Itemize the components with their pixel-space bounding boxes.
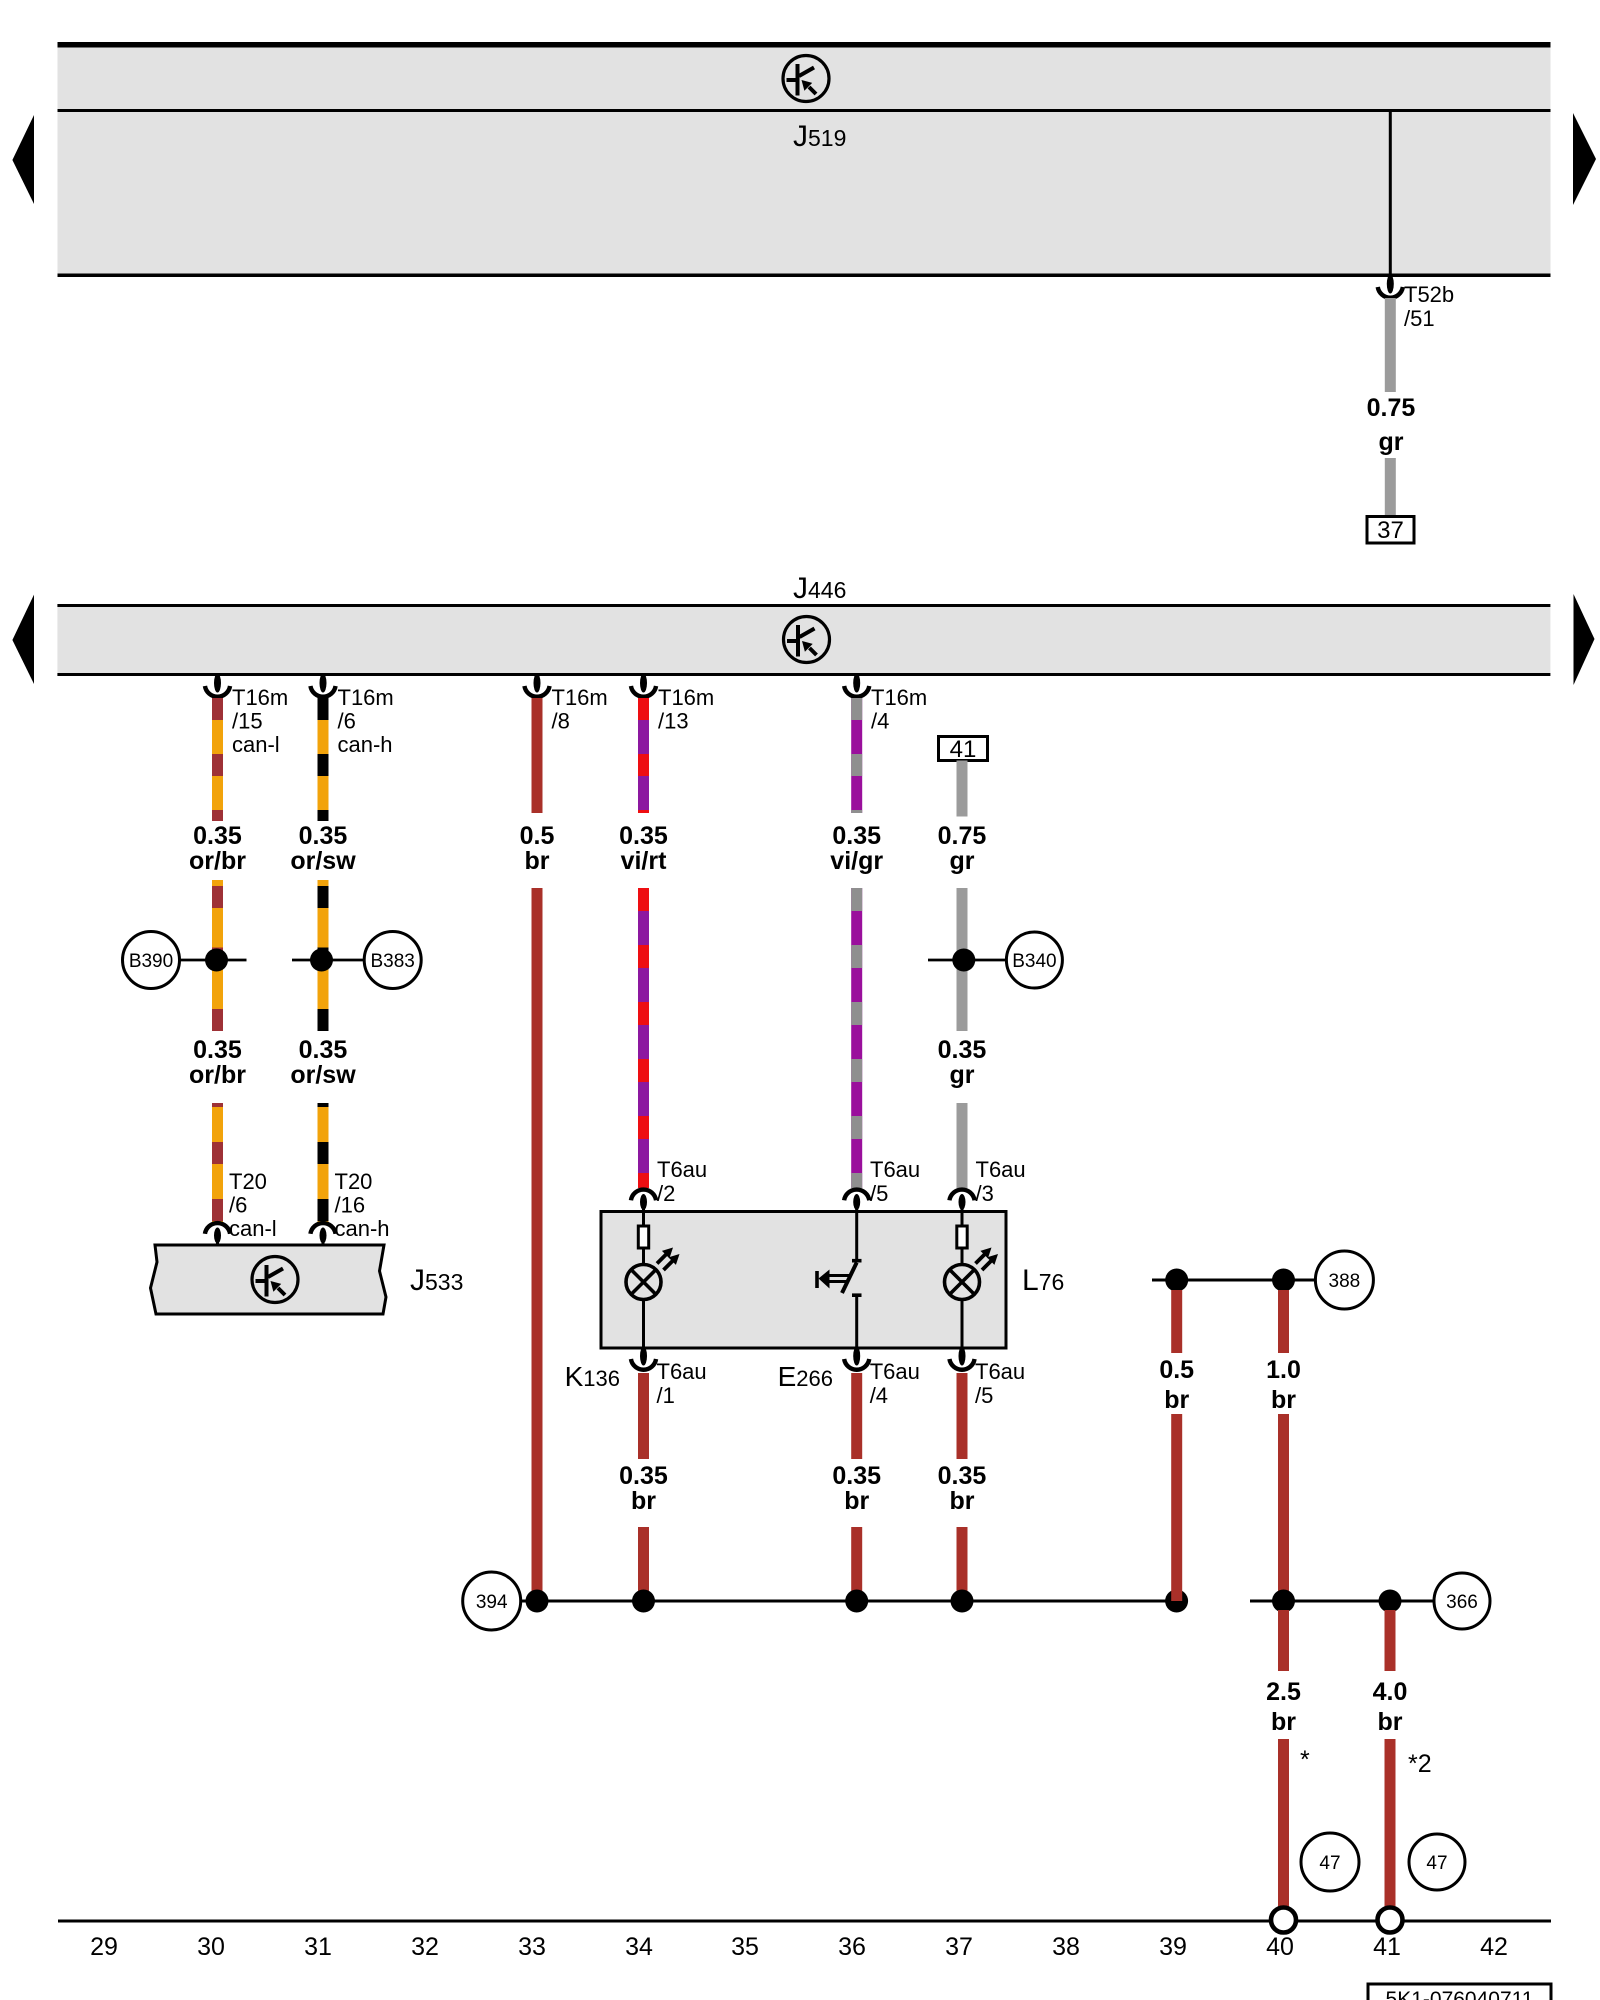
svg-text:or/sw: or/sw (290, 1061, 356, 1089)
svg-text:31: 31 (304, 1933, 332, 1961)
svg-text:41: 41 (1373, 1933, 1401, 1961)
svg-text:or/br: or/br (189, 847, 246, 875)
connector T6au/5 (top) (844, 1190, 869, 1212)
svg-text:37: 37 (1377, 517, 1404, 544)
svg-text:0.35: 0.35 (938, 1462, 987, 1490)
warning lamp (second, right) in L76 (945, 1212, 999, 1349)
junction on wire or/sw (310, 949, 333, 972)
svg-text:B390: B390 (129, 951, 173, 972)
ground terminal ring (track 41) (1378, 1908, 1403, 1933)
svg-text:gr: gr (950, 1061, 975, 1089)
svg-text:*2: *2 (1408, 1750, 1432, 1778)
svg-text:*: * (1300, 1746, 1310, 1774)
svg-text:br: br (1164, 1386, 1189, 1414)
svg-text:0.35: 0.35 (193, 822, 242, 850)
svg-text:/5: /5 (975, 1383, 993, 1408)
bus line 366 (1250, 1600, 1434, 1603)
svg-text:br: br (1271, 1386, 1296, 1414)
svg-text:can-h: can-h (335, 1216, 390, 1241)
svg-text:/2: /2 (657, 1181, 675, 1206)
node circle 394 (463, 1572, 521, 1630)
svg-text:vi/gr: vi/gr (830, 847, 883, 875)
svg-text:K136: K136 (565, 1361, 620, 1392)
svg-text:0.35: 0.35 (299, 822, 348, 850)
svg-text:br: br (631, 1487, 656, 1515)
svg-text:T6au: T6au (657, 1157, 707, 1182)
connector T16m/8 (524, 674, 549, 697)
wire or/sw segment 3 (318, 1103, 329, 1222)
connector T6au/1 (bottom) (631, 1347, 656, 1370)
wire or/sw segment 2 (318, 880, 329, 1031)
svg-text:2.5: 2.5 (1266, 1678, 1301, 1706)
lamp unit box L76 (601, 1212, 1006, 1349)
control unit J533 (data bus diagnostic interface) box (151, 1245, 387, 1314)
svg-text:T16m: T16m (552, 685, 608, 710)
wire inside J519 to pin T52b/51 (1389, 112, 1392, 276)
svg-text:B383: B383 (371, 951, 415, 972)
svg-text:29: 29 (90, 1933, 118, 1961)
track reference box 41 (939, 736, 988, 763)
svg-text:38: 38 (1052, 1933, 1080, 1961)
control unit J519 (onboard supply control unit) box (58, 42, 1551, 277)
svg-text:388: 388 (1329, 1271, 1361, 1292)
svg-text:or/br: or/br (189, 1061, 246, 1089)
junction 394 right end (1165, 1590, 1188, 1613)
svg-text:L76: L76 (1022, 1264, 1064, 1297)
wire 2.5 br seg 2 (1278, 1739, 1289, 1908)
svg-text:/6: /6 (229, 1193, 247, 1218)
svg-text:30: 30 (197, 1933, 225, 1961)
svg-text:E266: E266 (778, 1361, 833, 1392)
svg-text:5K1-076040711: 5K1-076040711 (1386, 1988, 1534, 2000)
wire 0.5 br segment 2 (long, to ground bus 394) (532, 888, 543, 1601)
svg-text:4.0: 4.0 (1373, 1678, 1408, 1706)
wire 1.0 br (x=1283.5) seg 1 (1278, 1290, 1289, 1353)
wire 0.35 br from lamp2 seg 1 (957, 1373, 968, 1459)
svg-text:0.35: 0.35 (619, 822, 668, 850)
connector T20/16 (310, 1223, 335, 1245)
svg-text:T16m: T16m (338, 685, 394, 710)
wire or/br segment 3 (212, 1103, 223, 1222)
svg-text:0.75: 0.75 (938, 822, 987, 850)
svg-text:T16m: T16m (871, 685, 927, 710)
connector T6au/2 (631, 1190, 656, 1212)
node line to B390 (180, 959, 247, 962)
wire 0.35 br from E266 seg 1 (851, 1373, 862, 1459)
junction 366 left (1272, 1590, 1295, 1613)
svg-text:B340: B340 (1012, 951, 1056, 972)
wire 4.0 br seg 2 (1385, 1739, 1396, 1908)
svg-text:gr: gr (1379, 428, 1404, 456)
junction on wire or/br (205, 949, 228, 972)
bus line 394 (521, 1600, 1178, 1603)
connector T52b/51 (1378, 275, 1403, 298)
svg-text:42: 42 (1480, 1933, 1508, 1961)
svg-text:0.35: 0.35 (832, 1462, 881, 1490)
svg-text:0.35: 0.35 (619, 1462, 668, 1490)
connector T16m/6 (310, 674, 335, 697)
wire vi/rt segment 2 (638, 888, 649, 1188)
connector T16m/13 (631, 674, 656, 697)
svg-text:36: 36 (838, 1933, 866, 1961)
svg-text:0.35: 0.35 (299, 1036, 348, 1064)
left page arrow (J446 band) (12, 595, 34, 684)
svg-text:0.5: 0.5 (520, 822, 555, 850)
svg-text:br: br (844, 1487, 869, 1515)
wire gr segment 3 (957, 1103, 968, 1188)
svg-text:/8: /8 (552, 709, 570, 734)
svg-text:/13: /13 (658, 709, 689, 734)
ground designation circle 47 (right) (1409, 1834, 1465, 1890)
node circle B383 (364, 932, 421, 989)
wire 0.35 br from K136 seg 1 (638, 1373, 649, 1459)
wire or/sw segment 1 (318, 698, 329, 821)
connector T20/6 (205, 1223, 230, 1245)
svg-text:33: 33 (518, 1933, 546, 1961)
svg-text:can-h: can-h (338, 732, 393, 757)
svg-text:T6au: T6au (870, 1157, 920, 1182)
node line to B340 (928, 959, 1006, 962)
K symbol in J533 (252, 1257, 298, 1303)
wire 0.75 gr upper segment (1385, 298, 1396, 392)
svg-text:32: 32 (411, 1933, 439, 1961)
svg-text:J519: J519 (793, 120, 846, 153)
svg-text:T52b: T52b (1404, 282, 1454, 307)
wire gr segment 2 (957, 888, 968, 1031)
left page arrow (top band) (12, 115, 34, 204)
bottom rail line (58, 1920, 1551, 1923)
wire 0.5 br (x=1176.7) seg 1 (1171, 1290, 1182, 1353)
wire or/br segment 2 (212, 880, 223, 1031)
svg-text:/1: /1 (657, 1383, 675, 1408)
svg-text:T20: T20 (335, 1169, 373, 1194)
right page arrow (J446 band) (1574, 594, 1595, 685)
svg-text:394: 394 (476, 1592, 508, 1613)
svg-text:/4: /4 (870, 1383, 888, 1408)
svg-text:br: br (950, 1487, 975, 1515)
wire vi/gr segment 2 (851, 888, 862, 1188)
node line to B383 (292, 959, 365, 962)
svg-text:1.0: 1.0 (1266, 1356, 1301, 1384)
node circle 388 (1315, 1251, 1373, 1309)
svg-text:J533: J533 (410, 1264, 463, 1297)
svg-text:J446: J446 (793, 572, 846, 605)
ground designation circle 47 (left) (1301, 1833, 1359, 1891)
wire or/br segment 1 (212, 698, 223, 821)
wire 0.75 gr lower segment (1385, 458, 1396, 517)
wire 0.5 br (x=1176.7) seg 2 (1171, 1414, 1182, 1601)
svg-text:T16m: T16m (658, 685, 714, 710)
wire 0.35 br from lamp2 seg 2 (957, 1527, 968, 1601)
wire 4.0 br seg 1 (1385, 1610, 1396, 1671)
svg-text:40: 40 (1266, 1933, 1294, 1961)
junction 394/br0.5 (526, 1590, 549, 1613)
svg-text:366: 366 (1446, 1592, 1478, 1613)
switch E266 (817, 1212, 862, 1349)
svg-text:/15: /15 (232, 709, 263, 734)
node circle B340 (1006, 932, 1062, 988)
svg-text:T6au: T6au (657, 1359, 707, 1384)
svg-text:vi/rt: vi/rt (621, 847, 668, 875)
svg-text:/51: /51 (1404, 306, 1435, 331)
svg-text:37: 37 (945, 1933, 973, 1961)
bus line 388 (1152, 1279, 1315, 1282)
svg-text:T16m: T16m (232, 685, 288, 710)
wire 0.35 br from E266 seg 2 (851, 1527, 862, 1601)
wire 0.35 br from K136 seg 2 (638, 1527, 649, 1601)
svg-text:T6au: T6au (975, 1359, 1025, 1384)
svg-text:br: br (525, 847, 550, 875)
control unit J446 (parking aid) band (57, 604, 1550, 676)
junction on wire gr (952, 949, 975, 972)
junction 388 left (1165, 1269, 1188, 1292)
svg-text:39: 39 (1159, 1933, 1187, 1961)
K symbol in J519 (783, 56, 829, 102)
wire 2.5 br seg 1 (1278, 1610, 1289, 1671)
connector T6au/3 (949, 1190, 974, 1212)
node circle 366 (1434, 1573, 1490, 1629)
svg-text:47: 47 (1319, 1853, 1340, 1874)
junction 394/E266 (845, 1590, 868, 1613)
K symbol in J446 (784, 617, 830, 663)
wire 0.75 gr segment 1 (957, 761, 968, 817)
warning lamp K136 (with series resistor) (626, 1212, 680, 1349)
junction 394/K136 (632, 1590, 655, 1613)
svg-text:0.35: 0.35 (832, 822, 881, 850)
track numbers 29-42 (90, 1933, 1508, 1961)
wire 1.0 br (x=1283.5) seg 2 (1278, 1414, 1289, 1601)
connector T6au/4 (bottom) (844, 1347, 869, 1370)
svg-text:0.35: 0.35 (938, 1036, 987, 1064)
svg-text:47: 47 (1426, 1853, 1447, 1874)
connector T16m/15 (205, 674, 230, 697)
svg-text:0.5: 0.5 (1159, 1356, 1194, 1384)
node circle B390 (123, 932, 180, 989)
svg-text:br: br (1378, 1708, 1403, 1736)
svg-text:T20: T20 (229, 1169, 267, 1194)
ground terminal ring (track 40) (1271, 1908, 1296, 1933)
wire vi/rt segment 1 (638, 698, 649, 813)
svg-text:/6: /6 (338, 709, 356, 734)
wire vi/gr segment 1 (851, 698, 862, 813)
svg-text:br: br (1271, 1708, 1296, 1736)
svg-text:34: 34 (625, 1933, 653, 1961)
wire 0.5 br segment 1 (532, 698, 543, 813)
svg-text:gr: gr (950, 847, 975, 875)
right page arrow (top band) (1573, 113, 1596, 205)
svg-text:/3: /3 (976, 1181, 994, 1206)
svg-text:can-l: can-l (232, 732, 280, 757)
svg-text:0.75: 0.75 (1367, 394, 1416, 422)
diagram number box 5K1-076040711 (1368, 1984, 1551, 2000)
svg-text:T6au: T6au (976, 1157, 1026, 1182)
svg-text:T6au: T6au (870, 1359, 920, 1384)
svg-text:or/sw: or/sw (290, 847, 356, 875)
connector T6au/5 (bottom) (949, 1347, 974, 1370)
svg-text:35: 35 (731, 1933, 759, 1961)
junction 388 right (1272, 1269, 1295, 1292)
svg-text:41: 41 (950, 736, 977, 763)
connector T16m/4 (844, 674, 869, 697)
junction 394/lamp2 (951, 1590, 974, 1613)
junction 366 right (1379, 1590, 1402, 1613)
svg-text:/16: /16 (335, 1193, 366, 1218)
svg-text:/5: /5 (870, 1181, 888, 1206)
svg-text:can-l: can-l (229, 1216, 277, 1241)
track reference box 37 (1367, 517, 1414, 545)
svg-text:/4: /4 (871, 709, 889, 734)
svg-text:0.35: 0.35 (193, 1036, 242, 1064)
